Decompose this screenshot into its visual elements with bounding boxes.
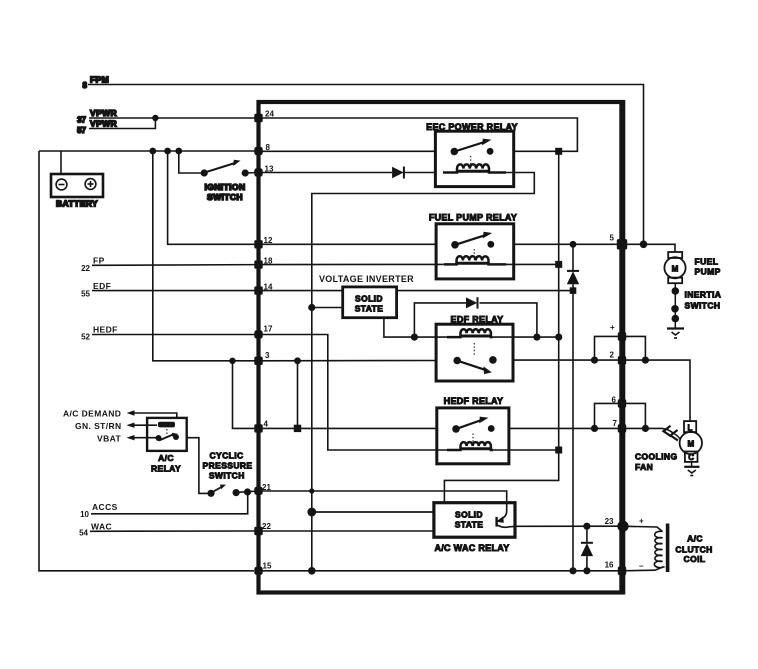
node HEDF 52 [81,325,118,342]
svg-text:8: 8 [83,81,88,90]
wire EDF coil line [414,336,558,338]
wire GN. ST/RN to A/C relay coil [133,424,157,426]
pin 21 [254,483,271,495]
svg-text:23: 23 [605,517,614,526]
EEC power relay U1 [426,122,518,187]
wire VPWR 57 branch [89,118,155,129]
svg-text:24: 24 [265,110,274,119]
wire HEDF switch to pin 7 and fan [509,427,662,429]
wire pin3 row to pin4 row loop [233,361,259,429]
ignition switch [201,160,259,202]
node VBAT [97,434,135,444]
wire pin 18 to fuel pump relay coil [259,263,444,265]
svg-text:M: M [672,264,679,273]
pin 2 [610,351,627,365]
junction bus voltage inverter [308,304,315,311]
svg-text:RELAY: RELAY [151,464,181,474]
junction bus pin15 [308,567,316,575]
pin 13 [254,164,274,176]
svg-text:PRESSURE: PRESSURE [203,461,253,471]
wire pin 13 to diode [259,172,393,174]
wire battery to pin3 loop [153,151,259,361]
pin 3 [254,351,270,365]
wire WAC to pin 22 [90,530,259,532]
wire EEC coil wrap to bus [312,173,535,571]
voltage inverter solid state U2 [343,287,397,318]
junction battery line A [149,148,156,155]
node A/C DEMAND [63,409,135,419]
svg-text:VBAT: VBAT [97,434,122,444]
wire WAC output to pin 23 [515,525,622,527]
pin 12 [254,236,273,248]
svg-text:A/C DEMAND: A/C DEMAND [63,409,121,419]
svg-text:–: – [639,562,644,571]
svg-text:STATE: STATE [355,304,384,314]
wire voltage inverter right to V2 [397,290,573,292]
svg-text:SWITCH: SWITCH [685,301,721,311]
junction EDF loop right [533,334,540,341]
svg-text:SOLID: SOLID [355,294,383,304]
node EDF 55 [81,281,111,299]
wire bus to voltage inverter input [312,307,343,309]
wire battery to ignition switch [179,151,204,173]
svg-text:A/C WAC RELAY: A/C WAC RELAY [434,543,509,553]
svg-text:WAC: WAC [91,522,112,532]
wire ACCS up to cyclic switch output [91,492,248,514]
junction battery line B [164,148,171,155]
junction EDF loop left [411,334,418,341]
HEDF relay K4 [437,396,509,464]
wire pin 17 drop to HEDF coil [259,335,448,451]
pin 17 [254,325,273,339]
junction EDF coil V1 [555,334,562,341]
svg-text:FUEL: FUEL [695,257,719,267]
pin 6 [612,396,627,408]
svg-text:A/C: A/C [158,453,174,463]
wire VBAT to A/C relay [133,437,158,439]
svg-text:57: 57 [77,126,86,135]
svg-text:CYCLIC: CYCLIC [209,451,243,461]
fuel pump M1 [664,252,720,283]
svg-text:PUMP: PUMP [695,267,721,277]
wire FPM junction fuel pump [622,244,675,252]
svg-text:8: 8 [266,143,271,152]
svg-text:SOLID: SOLID [455,510,483,520]
wire far left down to pin 15 [39,151,254,571]
wire pin3 row drop to pin4 row [297,361,299,429]
svg-text:HEDF: HEDF [93,325,118,335]
wire V2 long vertical to pin16 row [572,291,574,571]
EEC module box [259,100,623,595]
svg-text:COOLING: COOLING [635,452,677,462]
svg-text:M: M [687,440,694,449]
svg-text:2: 2 [610,351,615,360]
pin 22 [254,522,271,535]
junction FPM fuel pump line [640,241,648,249]
svg-text:SWITCH: SWITCH [209,471,245,481]
wire bus to WAC input [312,511,434,513]
junction pin4 square [294,425,301,432]
wire FP to pin 18 [92,264,259,267]
cyclic pressure switch [203,451,259,497]
junction diode bottom [583,567,590,574]
node WAC 54 [79,522,112,538]
wire pin 15 row to pin 16 [259,570,623,572]
svg-text:17: 17 [264,325,273,334]
svg-text:IGNITION: IGNITION [205,182,246,192]
wire HEDF coil to V1 [493,449,559,451]
pin 16 [605,561,627,576]
wire pin 4 to HEDF switch [259,427,437,429]
junction V2 top [570,241,577,248]
fuel pump relay K2 [429,213,517,279]
svg-text:52: 52 [81,333,90,342]
junction U loop right [642,357,649,364]
svg-text:EDF: EDF [93,281,111,291]
cooling fan C terminal [685,452,698,463]
inertia switch S1 [671,283,721,327]
wire pin 21 to WAC relay base [259,491,507,503]
diode CR3 EDF flyback [466,297,478,308]
wire A/C relay to cyclic pressure switch [187,438,211,494]
A/C relay [147,418,187,474]
svg-text:37: 37 [77,116,86,125]
junction pin6 loop right [642,425,649,432]
svg-text:7: 7 [613,419,618,428]
svg-text:10: 10 [80,510,89,519]
svg-text:+: + [639,517,644,526]
pin 8 [254,143,270,155]
junction bus WAC input [307,508,316,517]
EDF relay K3 [436,314,513,381]
svg-text:VPWR: VPWR [90,108,117,118]
node plus clutch [639,517,644,526]
junction diode top [583,523,590,530]
svg-text:16: 16 [605,561,614,570]
svg-text:CLUTCH: CLUTCH [675,545,712,555]
svg-text:GN. ST/RN: GN. ST/RN [75,421,122,431]
voltage inverter label [319,274,414,284]
svg-text:A/C: A/C [687,534,703,544]
wire pin6 U loop [595,403,646,428]
junction battery line C [175,148,182,155]
pin 18 [254,256,273,269]
wire EDF to pin 14 [92,290,259,292]
wire EDF switch to pin 2 [513,360,690,421]
connector chevrons fan harness [662,426,678,441]
battery [51,174,103,209]
cooling fan L terminal [684,421,696,432]
cooling fan motor M2 [635,432,702,472]
wire FPM to right side down to fuel pump line [88,85,644,242]
junction pin3 loop [229,358,235,364]
node VPWR 37 [77,108,117,125]
svg-text:ACCS: ACCS [92,502,118,512]
node ACCS 10 [80,502,118,519]
wire EEC relay output to V1 junction [514,150,559,152]
wire pin 14 to voltage inverter [259,290,343,292]
svg-text:STATE: STATE [455,520,484,530]
wire pin 12 to fuel pump relay [259,243,437,245]
pin 24 [254,110,274,123]
svg-text:VOLTAGE INVERTER: VOLTAGE INVERTER [319,274,414,284]
svg-text:5: 5 [610,234,615,243]
wire fuel pump coil to V1 [506,263,559,265]
wire V1 vertical power bus [444,151,558,502]
node FP 22 [81,256,105,274]
battery B+ feed wire [39,151,259,174]
wire A/C DEMAND to A/C relay top [133,413,177,418]
junction V1 top square [555,148,562,155]
pin 15 [254,562,272,576]
wire pin 23 to clutch coil [622,526,663,531]
wire pin 22 to WAC relay [259,530,434,532]
diode CR1 pin13 [392,167,404,179]
junction U loop left [591,357,598,364]
svg-text:3: 3 [265,351,270,360]
wire fuel pump relay output to pin 5 [514,243,622,245]
junction bus pin21 [309,488,314,493]
wire HEDF to pin 17 [92,334,259,336]
svg-text:VPWR: VPWR [90,119,117,129]
svg-text:BATTERY: BATTERY [56,199,98,209]
node FPM [83,75,110,91]
wire pin 3 to EDF switch [259,360,437,362]
diode CR2 flyback on V2 [567,244,579,290]
svg-text:INERTIA: INERTIA [685,290,722,300]
A/C WAC relay U3 [434,503,515,553]
svg-text:+: + [610,323,615,332]
svg-text:55: 55 [81,290,90,299]
svg-text:FP: FP [93,256,105,266]
wire pin 8 to EEC relay [259,150,436,152]
wire battery to pin12 [168,151,259,244]
pin 5 [610,234,628,250]
junction V1 coil square [555,261,562,268]
pin plus aux connector [610,323,626,341]
svg-text:FAN: FAN [635,462,653,472]
junction VPWR [152,115,158,121]
wire VPWR 37 to pin 24 [89,117,259,119]
svg-text:22: 22 [262,522,271,531]
wire aux connector U loop [595,336,646,360]
svg-text:54: 54 [79,529,88,538]
pin 23 [605,517,629,532]
node minus clutch [639,562,644,571]
node GN. ST/RN [75,421,135,431]
pin 14 [254,282,273,294]
svg-text:SWITCH: SWITCH [207,192,243,202]
wire diode to EEC coil [404,172,436,174]
junction pin6 loop left [591,425,598,432]
ground inertia [667,329,684,339]
wire EDF flyback loop [414,303,537,337]
junction pin3 drop [294,357,301,364]
node VPWR 57 [77,119,117,136]
wire voltage inverter output to EDF coil [384,318,415,337]
junction V2 pin14 square [570,287,577,294]
svg-text:HEDF RELAY: HEDF RELAY [444,396,504,406]
wire pin 16 to clutch coil bottom [622,567,664,571]
diode CR4 WAC clamp [581,526,593,571]
pin 4 [254,420,268,433]
svg-text:FUEL PUMP RELAY: FUEL PUMP RELAY [429,213,517,223]
svg-text:COIL: COIL [684,554,706,564]
svg-text:4: 4 [264,420,269,429]
A/C clutch coil L1 [654,524,712,573]
svg-text:15: 15 [263,562,272,571]
wire pin 24 inside wrap to EEC relay output [259,118,578,151]
svg-text:FPM: FPM [90,75,109,85]
junction V2 bottom [569,567,576,574]
junction HEDF coil V1 square [555,447,562,454]
svg-text:22: 22 [81,264,90,273]
svg-text:C: C [688,453,694,462]
ground cooling fan [684,462,699,476]
pin 7 [613,419,627,433]
